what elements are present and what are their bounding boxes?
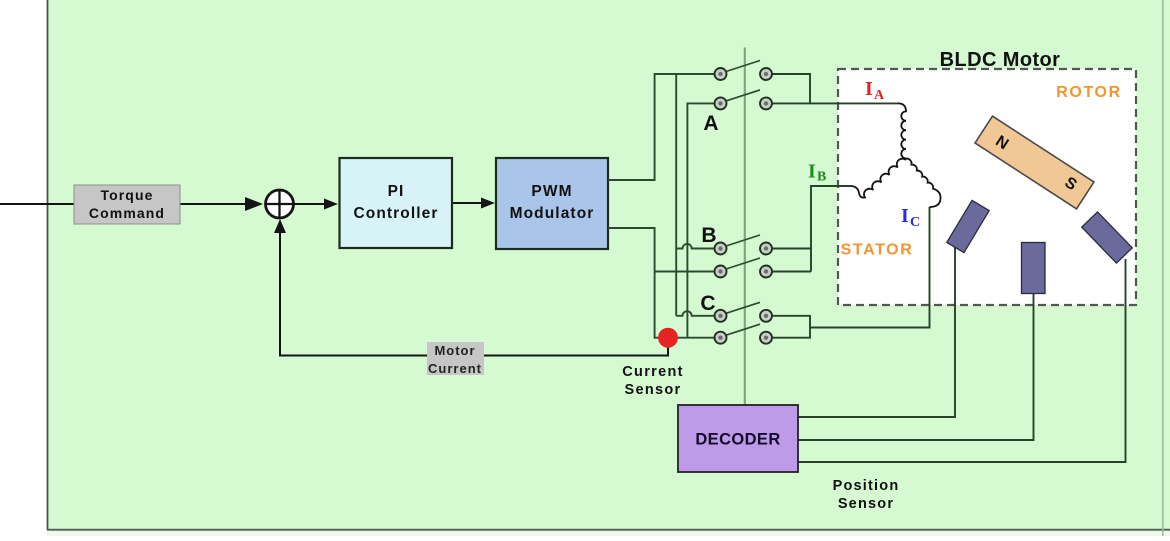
svg-text:Position: Position — [833, 478, 900, 494]
svg-text:A: A — [703, 112, 718, 135]
svg-text:Sensor: Sensor — [838, 496, 894, 512]
svg-text:Torque: Torque — [100, 187, 153, 203]
svg-text:I: I — [808, 161, 816, 183]
svg-text:B: B — [701, 224, 716, 247]
svg-text:Motor: Motor — [434, 343, 475, 358]
svg-text:PI: PI — [388, 183, 405, 200]
svg-text:C: C — [910, 215, 920, 230]
svg-text:I: I — [865, 78, 873, 100]
svg-text:STATOR: STATOR — [841, 242, 914, 259]
svg-text:ROTOR: ROTOR — [1056, 84, 1121, 101]
svg-text:Command: Command — [89, 205, 165, 221]
svg-text:Sensor: Sensor — [625, 382, 682, 398]
svg-text:Controller: Controller — [353, 205, 438, 222]
svg-text:Current: Current — [428, 361, 482, 376]
svg-text:Current: Current — [622, 364, 683, 380]
svg-text:B: B — [817, 170, 826, 185]
svg-text:Modulator: Modulator — [510, 205, 595, 222]
svg-text:PWM: PWM — [531, 183, 572, 200]
svg-text:BLDC Motor: BLDC Motor — [940, 49, 1061, 71]
svg-text:C: C — [700, 292, 715, 315]
svg-text:DECODER: DECODER — [695, 431, 780, 449]
svg-text:A: A — [874, 88, 885, 103]
svg-text:I: I — [901, 205, 909, 227]
